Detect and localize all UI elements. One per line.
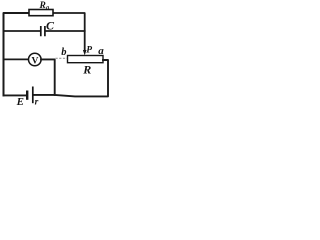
wire: capacitor branch <box>4 30 41 32</box>
svg-text:E: E <box>16 96 24 107</box>
battery E short plate <box>26 91 28 100</box>
svg-text:R0: R0 <box>39 1 50 12</box>
wire: bottom wire left of battery <box>4 94 26 96</box>
slider P arrowhead <box>83 50 87 55</box>
svg-text:R: R <box>82 62 91 76</box>
wire: stub to rheostat terminal b (faint) <box>56 57 68 59</box>
svg-text:P: P <box>86 45 92 55</box>
wire: voltmeter branch right with junction down to bottom wire <box>41 59 55 95</box>
wire: outer loop left side and top <box>4 13 30 95</box>
battery E long plate <box>32 87 34 104</box>
svg-text:b: b <box>61 47 66 58</box>
wire: capacitor branch right segment to slider column <box>46 30 85 32</box>
wire: stub from rheostat terminal a, right wire and bottom wire <box>34 60 108 96</box>
wire: voltmeter branch left <box>4 58 29 60</box>
capacitor C plates <box>41 26 45 36</box>
wire: top wire from R0 to slider drop at x=84.7 <box>53 13 85 51</box>
voltmeter V <box>29 53 42 66</box>
svg-text:C: C <box>46 19 55 33</box>
resistor R0 <box>29 10 53 16</box>
svg-text:r: r <box>35 98 39 107</box>
svg-text:a: a <box>98 45 104 57</box>
rheostat R box <box>68 56 104 63</box>
svg-text:V: V <box>31 56 38 66</box>
